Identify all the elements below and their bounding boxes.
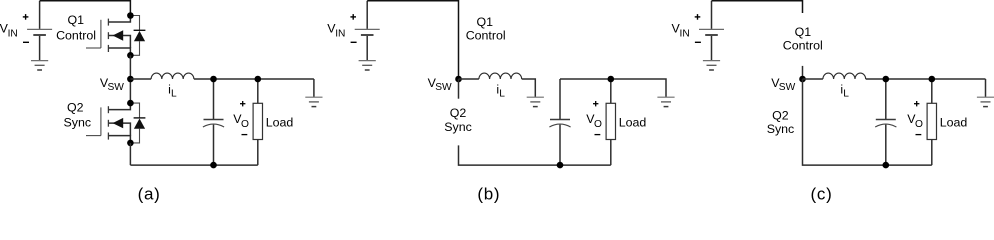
- svg-text:iL: iL: [840, 82, 849, 99]
- body diode of Q2 (a) cathode bar: [134, 117, 146, 119]
- wire inductor to ground drop (b): [522, 79, 536, 97]
- svg-text:(a): (a): [138, 185, 161, 204]
- battery V1 (circuit a) negative plate: [33, 34, 46, 36]
- svg-text:Q1: Q1: [795, 25, 812, 39]
- transistor Q1 (a) drain stub: [108, 16, 130, 23]
- capacitor C (b): [549, 79, 570, 165]
- battery V1 (circuit a) positive plate: [27, 28, 52, 30]
- svg-text:VIN: VIN: [327, 22, 345, 40]
- svg-text:Q1: Q1: [68, 13, 85, 27]
- svg-text:VSW: VSW: [100, 76, 124, 93]
- body diode of Q1 (a) wiring: [130, 16, 139, 56]
- ground below battery V1 (circuit c): [703, 61, 720, 70]
- load resistor (b): [606, 79, 615, 165]
- svg-text:Sync: Sync: [767, 122, 795, 136]
- drain node dot of Q2 (a): [127, 100, 134, 107]
- ground below battery V1 (circuit a): [31, 61, 48, 70]
- transistor Q2 (a) gate bar: [100, 107, 102, 135]
- body diode of Q2 (a) triangle: [134, 119, 145, 129]
- transistor Q1 (a) body stub: [108, 36, 130, 49]
- node dot load top (a): [254, 76, 261, 83]
- wire inductor to output rail (a): [194, 78, 314, 80]
- svg-text:(b): (b): [477, 185, 500, 204]
- transistor Q1 (a) gate lead: [86, 47, 101, 49]
- wire VSW to inductor (c): [803, 78, 823, 80]
- svg-text:iL: iL: [168, 82, 177, 99]
- battery V1 (circuit c) positive plate: [699, 28, 724, 30]
- battery V1 (circuit b) negative plate: [361, 34, 374, 36]
- battery V1 (circuit b) positive plate: [355, 28, 380, 30]
- svg-text:Q2: Q2: [772, 109, 789, 123]
- drain node dot of Q1 (a): [127, 12, 134, 19]
- svg-text:Control: Control: [56, 28, 96, 42]
- svg-text:Control: Control: [783, 39, 823, 53]
- svg-text:Load: Load: [940, 115, 968, 129]
- svg-text:Q1: Q1: [477, 15, 494, 29]
- wire VSW to inductor (b): [459, 78, 479, 80]
- transistor Q2 (a) gate lead: [86, 135, 101, 137]
- svg-text:VO: VO: [233, 112, 249, 130]
- svg-text:Sync: Sync: [64, 116, 92, 130]
- plus sign of V1 (circuit a): [23, 14, 29, 20]
- plus sign of V1 (circuit b): [350, 14, 356, 20]
- battery V1 (circuit c) negative plate: [705, 34, 718, 36]
- top rail circuit b: [367, 1, 458, 79]
- wire below VSW, open Q2 top lead (b): [458, 79, 460, 99]
- node dot load top (c): [929, 76, 936, 83]
- bottom rail (a): [130, 164, 257, 166]
- svg-text:Q2: Q2: [67, 100, 84, 114]
- transistor Q2 (a) channel segments: [107, 106, 109, 139]
- transistor Q2 (a) body stub: [108, 123, 130, 136]
- wire from top rail to battery V1 (circuit c): [711, 1, 713, 29]
- source node dot of Q1 (a): [127, 52, 134, 59]
- svg-text:Load: Load: [266, 115, 294, 129]
- svg-text:VO: VO: [586, 112, 602, 130]
- right ground (c): [977, 97, 994, 106]
- wire battery V1 (circuit a) to ground: [39, 36, 41, 61]
- wire VSW to inductor (a): [130, 78, 151, 80]
- node VSW dot (b): [455, 76, 462, 83]
- wire battery V1 (circuit c) to ground: [711, 36, 713, 61]
- node VSW dot (a): [127, 76, 134, 83]
- open Q2 bottom lead to bottom rail (b): [459, 145, 611, 165]
- svg-text:Sync: Sync: [444, 120, 472, 134]
- top rail circuit c: [712, 1, 803, 13]
- ground below battery V1 (circuit b): [359, 61, 376, 70]
- plus sign of V1 (circuit c): [695, 14, 701, 20]
- transistor Q2 (a) source stub: [108, 136, 130, 143]
- output top rail (b): [560, 79, 666, 97]
- wire Q1 source to VSW (a): [129, 55, 131, 103]
- body diode of Q1 (a) cathode bar: [134, 29, 146, 31]
- svg-text:VSW: VSW: [428, 76, 452, 93]
- svg-text:VO: VO: [907, 112, 923, 130]
- wire battery V1 (circuit b) to ground: [366, 36, 368, 61]
- load resistor (a): [253, 79, 262, 165]
- node dot cap bottom (b): [557, 162, 564, 169]
- body diode of Q2 (a) wiring: [130, 103, 139, 143]
- node dot cap top (c): [883, 76, 890, 83]
- transistor Q2 (a) body arrow: [113, 118, 124, 128]
- node dot cap bottom (c): [883, 162, 890, 169]
- inductor L (b): [479, 73, 522, 79]
- wire from top rail to battery V1 (circuit b): [366, 1, 368, 29]
- svg-text:(c): (c): [811, 185, 833, 204]
- wire down to right ground (a): [313, 79, 315, 97]
- plus sign above V_O near load resistor (b): [593, 101, 598, 106]
- transistor Q1 (a) channel segments: [107, 19, 109, 52]
- wire Q2 source to bottom rail (a): [129, 143, 131, 165]
- body diode of Q1 (a) triangle: [134, 31, 145, 41]
- inductor L (a): [151, 73, 194, 79]
- top rail circuit a: [40, 1, 131, 16]
- wire VSW down and bottom rail (c): [803, 79, 932, 165]
- node dot cap bottom (a): [210, 162, 217, 169]
- transistor Q1 (a) body arrow: [113, 30, 124, 40]
- svg-text:Control: Control: [466, 28, 506, 42]
- inductor L (c): [823, 73, 866, 79]
- svg-text:VSW: VSW: [771, 76, 795, 93]
- capacitor C (c): [875, 79, 896, 165]
- svg-text:iL: iL: [496, 82, 505, 99]
- plus sign above V_O near load resistor (c): [914, 101, 919, 106]
- minus sign of V1 (circuit a): [23, 41, 29, 43]
- open Q1 bottom lead to VSW (c): [802, 66, 804, 79]
- minus sign below V_O near load resistor (a): [242, 134, 248, 136]
- transistor Q1 (a) gate bar: [100, 20, 102, 48]
- node VSW dot (c): [799, 76, 806, 83]
- plus sign above V_O near load resistor (a): [240, 101, 245, 106]
- svg-text:Q2: Q2: [450, 106, 467, 120]
- source node dot of Q2 (a): [127, 140, 134, 147]
- transistor Q2 (a) drain stub: [108, 103, 130, 110]
- minus sign of V1 (circuit c): [695, 41, 701, 43]
- node dot cap top (a): [210, 76, 217, 83]
- node dot load top (b): [608, 76, 615, 83]
- right ground (b): [657, 97, 674, 106]
- minus sign below V_O near load resistor (b): [595, 134, 601, 136]
- svg-text:VIN: VIN: [0, 22, 18, 40]
- wire from top rail to battery V1 (circuit a): [39, 1, 41, 29]
- right ground (a): [305, 97, 322, 106]
- load resistor (c): [927, 79, 936, 165]
- transistor Q1 (a) source stub: [108, 48, 130, 55]
- minus sign of V1 (circuit b): [351, 41, 357, 43]
- svg-text:VIN: VIN: [672, 22, 690, 40]
- wire inductor to output rail (c): [866, 78, 986, 80]
- svg-text:Load: Load: [619, 115, 647, 129]
- wire down to right ground (c): [985, 79, 987, 97]
- capacitor C (a): [203, 79, 224, 165]
- minus sign below V_O near load resistor (c): [916, 134, 922, 136]
- ground after inductor (b): [527, 97, 544, 106]
